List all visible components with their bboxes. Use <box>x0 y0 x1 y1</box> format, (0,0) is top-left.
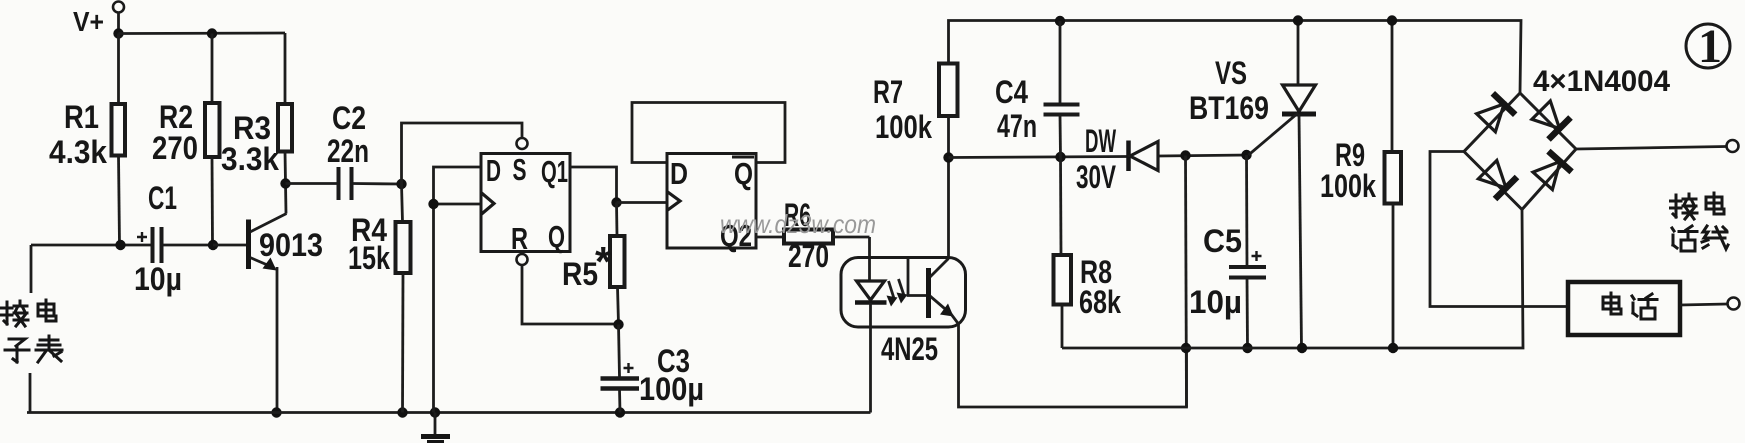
svg-text:R5: R5 <box>562 256 598 292</box>
svg-text:4.3k: 4.3k <box>49 134 107 170</box>
resistor R4 <box>402 184 403 222</box>
node Q1 R5 CP2 <box>611 197 621 207</box>
node thyristor cathode bottom <box>1297 343 1307 353</box>
wire phone box right <box>1680 304 1727 305</box>
svg-text:100k: 100k <box>1320 168 1376 204</box>
wire D CP net <box>434 167 482 413</box>
wire Q1 to U2 <box>570 167 617 203</box>
node R7 collector <box>943 152 953 162</box>
box telephone 电话 <box>1568 282 1680 335</box>
resistor R7 <box>939 64 958 117</box>
wire S net <box>402 123 523 184</box>
S inverter circle <box>517 138 528 149</box>
wire DW node down <box>1186 156 1187 408</box>
wire bridge left to phone box <box>1430 152 1568 307</box>
resistor R3 <box>284 33 287 104</box>
LED in 4N25 <box>857 281 885 300</box>
bridge rectifier 4x1N4004 <box>1464 93 1576 210</box>
svg-text:100µ: 100µ <box>639 371 704 407</box>
wire top rail right <box>949 21 1522 94</box>
wire left terminal 接电子表 <box>30 245 33 293</box>
node R2 top <box>207 28 217 38</box>
capacitor C2 <box>286 182 338 185</box>
svg-text:10µ: 10µ <box>134 261 182 297</box>
svg-text:Q: Q <box>548 219 565 254</box>
svg-text:V+: V+ <box>73 6 104 37</box>
capacitor C4 <box>1059 21 1062 104</box>
node R9 bottom <box>1388 343 1398 353</box>
transistor Q1 9013 <box>246 220 251 270</box>
node C4 top <box>1055 16 1065 26</box>
wire R net <box>522 265 618 324</box>
node R9 top <box>1387 15 1397 25</box>
node C5 bottom <box>1242 343 1252 353</box>
svg-text:C2: C2 <box>332 100 366 136</box>
node thyristor anode <box>1293 15 1303 25</box>
node C2 R4 S <box>396 179 406 189</box>
svg-text:9013: 9013 <box>259 227 323 263</box>
node C5 top <box>1241 150 1251 160</box>
node R4 bottom <box>397 407 407 417</box>
svg-text:*: * <box>595 238 612 285</box>
wire bottom rail <box>27 411 871 414</box>
node C4 R8 <box>1055 152 1065 162</box>
svg-text:R7: R7 <box>873 74 903 110</box>
node CP junction <box>428 199 438 209</box>
wire Q2 out <box>756 236 784 239</box>
diode D3 bottom-left <box>1478 160 1506 188</box>
wire LED cathode <box>869 303 872 413</box>
svg-text:D: D <box>486 153 501 188</box>
diode D4 bottom-right <box>1533 162 1560 190</box>
R inverter circle <box>517 254 528 265</box>
svg-text:68k: 68k <box>1079 284 1121 320</box>
optocoupler U3 4N25 <box>841 258 966 328</box>
svg-text:R1: R1 <box>64 99 99 135</box>
diode D2 top-right <box>1532 101 1560 129</box>
wire LED anode <box>868 237 871 281</box>
zener DW <box>1126 141 1131 172</box>
svg-text:270: 270 <box>152 130 198 166</box>
node V+ junction <box>113 28 123 38</box>
svg-text:15k: 15k <box>348 240 390 276</box>
thyristor VS BT169 <box>1297 21 1300 85</box>
svg-text:47n: 47n <box>997 108 1037 144</box>
ground <box>434 413 437 435</box>
svg-text:3.3k: 3.3k <box>221 141 279 177</box>
svg-text:270: 270 <box>788 238 829 274</box>
wire bridge right to terminal <box>1576 147 1726 150</box>
light arrows <box>889 281 895 300</box>
svg-text:Q: Q <box>734 156 753 191</box>
node R5 bottom <box>613 319 623 329</box>
label circled 1 <box>1686 24 1730 68</box>
wire collector up <box>947 158 950 259</box>
label 接电话线 <box>1671 194 1698 219</box>
label 接电子表 <box>2 301 29 326</box>
svg-text:10µ: 10µ <box>1189 284 1242 320</box>
svg-text:22n: 22n <box>327 133 369 169</box>
resistor R6 <box>784 230 833 244</box>
node emitter return <box>1181 343 1191 353</box>
resistor R1 <box>117 34 120 105</box>
svg-text:C1: C1 <box>148 180 177 216</box>
terminal phone line top <box>1727 140 1739 152</box>
node ground junction <box>430 407 440 417</box>
node R1 C1 <box>115 240 125 250</box>
svg-text:30V: 30V <box>1076 159 1116 195</box>
wire emitter down <box>276 267 279 413</box>
capacitor C5 <box>1245 155 1248 266</box>
svg-text:C5: C5 <box>1203 223 1242 259</box>
node R2 base <box>208 240 218 250</box>
node collector C2 junction <box>280 178 290 188</box>
resistor R2 <box>211 34 214 104</box>
wire feedback Q2bar to D2 <box>632 103 785 163</box>
wire base <box>213 244 248 247</box>
flip-flop U2 <box>667 154 756 249</box>
resistor R9 <box>1391 21 1394 153</box>
terminal V+ <box>113 2 124 13</box>
wire lower rail <box>1062 210 1523 349</box>
svg-text:4×1N4004: 4×1N4004 <box>1533 65 1670 98</box>
terminal phone line bottom <box>1728 298 1740 310</box>
svg-text:C4: C4 <box>995 74 1028 110</box>
svg-text:www.dz3w.com: www.dz3w.com <box>720 209 876 239</box>
svg-text:Q1: Q1 <box>541 154 568 189</box>
phototransistor <box>908 258 928 296</box>
svg-text:DW: DW <box>1085 123 1116 159</box>
flip-flop U1 <box>481 154 570 252</box>
svg-text:S: S <box>513 152 527 187</box>
node DW out <box>1180 150 1190 160</box>
resistor R8 <box>1059 157 1062 255</box>
svg-text:100k: 100k <box>875 109 932 145</box>
capacitor C3 <box>619 325 620 378</box>
diode D1 top-left <box>1477 104 1504 132</box>
svg-text:VS: VS <box>1215 55 1247 91</box>
capacitor C1 <box>31 244 151 247</box>
node C3 bottom <box>615 407 625 417</box>
svg-text:D: D <box>670 156 688 191</box>
svg-text:BT169: BT169 <box>1189 90 1269 126</box>
svg-text:1: 1 <box>1698 20 1722 73</box>
svg-text:4N25: 4N25 <box>881 331 938 367</box>
wire mid net <box>949 157 1129 158</box>
node emitter bottom <box>271 407 281 417</box>
resistor R5 <box>615 203 618 237</box>
wire top rail left <box>119 32 286 35</box>
svg-text:R: R <box>511 221 528 256</box>
